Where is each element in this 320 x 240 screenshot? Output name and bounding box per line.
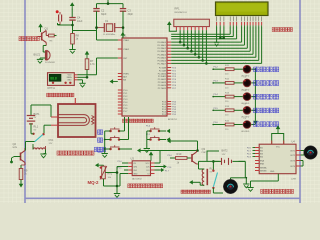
svg-text:P2.3: P2.3 — [247, 156, 251, 158]
svg-text:Q1: Q1 — [45, 27, 49, 31]
svg-text:BUZ1: BUZ1 — [34, 53, 41, 57]
svg-text:PSEN: PSEN — [123, 74, 129, 76]
svg-text:P2.5: P2.5 — [172, 82, 176, 84]
svg-text:OV1: OV1 — [49, 139, 54, 142]
svg-text:IN2: IN2 — [260, 150, 263, 152]
svg-text:88.8: 88.8 — [50, 77, 57, 81]
svg-text:P2.0: P2.0 — [172, 68, 176, 70]
svg-text:P2.0: P2.0 — [247, 147, 251, 149]
svg-text:RP1: RP1 — [175, 7, 181, 11]
svg-text:OUT3: OUT3 — [290, 160, 295, 162]
svg-text:P2.1: P2.1 — [172, 70, 176, 72]
svg-text:P0.2/AD2: P0.2/AD2 — [157, 47, 166, 50]
svg-text:U3: U3 — [131, 157, 135, 161]
svg-text:P3.5: P3.5 — [172, 114, 176, 116]
svg-text:OUT1: OUT1 — [290, 150, 295, 152]
svg-text:GND: GND — [133, 173, 138, 175]
svg-text:P2.3/A11: P2.3/A11 — [158, 75, 167, 78]
svg-text:GND: GND — [270, 171, 275, 173]
svg-text:AT89C51: AT89C51 — [168, 118, 178, 121]
svg-text:P2.1: P2.1 — [247, 150, 251, 152]
svg-text:CH1: CH1 — [133, 170, 137, 172]
svg-text:VCC: VCC — [146, 163, 151, 165]
svg-text:P0.0/AD0: P0.0/AD0 — [157, 41, 166, 44]
svg-text:12V: 12V — [49, 143, 53, 145]
svg-text:P0.3/AD3: P0.3/AD3 — [157, 50, 166, 53]
svg-text:P2.7/A15: P2.7/A15 — [158, 87, 167, 90]
svg-text:P2.3: P2.3 — [172, 76, 176, 78]
svg-text:P0.4/AD4: P0.4/AD4 — [157, 53, 166, 56]
svg-text:IN3: IN3 — [260, 153, 263, 155]
svg-text:P2.1/A9: P2.1/A9 — [159, 69, 167, 72]
svg-text:30pF: 30pF — [128, 13, 134, 16]
svg-text:P2.4: P2.4 — [172, 79, 176, 81]
svg-text:DHT11: DHT11 — [48, 87, 56, 90]
svg-text:P3.4: P3.4 — [168, 155, 172, 157]
svg-text:P2.5/A13: P2.5/A13 — [158, 81, 167, 84]
svg-text:GND: GND — [67, 80, 72, 82]
svg-text:X1: X1 — [105, 19, 109, 23]
svg-text:ADC0832: ADC0832 — [132, 177, 142, 180]
svg-text:P0.5/AD5: P0.5/AD5 — [157, 56, 166, 59]
svg-text:LED-RED: LED-RED — [241, 131, 250, 133]
svg-text:RL1: RL1 — [34, 126, 39, 129]
svg-text:P0.7/AD7: P0.7/AD7 — [157, 62, 166, 65]
svg-text:U4: U4 — [292, 140, 296, 144]
svg-text:4.7k: 4.7k — [90, 63, 95, 66]
svg-text:ALE: ALE — [123, 76, 127, 79]
svg-text:P0.1/AD1: P0.1/AD1 — [157, 44, 166, 47]
svg-text:IN1: IN1 — [260, 147, 263, 149]
svg-text:R10: R10 — [177, 152, 182, 156]
svg-text:P2.4/A12: P2.4/A12 — [158, 78, 167, 81]
svg-text:11.0592MHz: 11.0592MHz — [103, 34, 115, 36]
svg-text:P1.7: P1.7 — [165, 171, 169, 173]
svg-text:P2.2: P2.2 — [172, 73, 176, 75]
svg-text:P2.6: P2.6 — [172, 85, 176, 87]
svg-text:P2.6/A14: P2.6/A14 — [158, 84, 167, 87]
svg-text:P2.2: P2.2 — [247, 153, 251, 155]
svg-text:CH0: CH0 — [133, 166, 137, 168]
svg-text:VCC: VCC — [276, 146, 281, 148]
svg-text:P1.6: P1.6 — [168, 167, 172, 169]
svg-text:IN4: IN4 — [260, 156, 263, 158]
svg-text:BAT2: BAT2 — [222, 150, 229, 153]
svg-text:P0.6/AD6: P0.6/AD6 — [157, 59, 166, 62]
svg-text:XTAL2: XTAL2 — [123, 48, 130, 51]
svg-text:PNP: PNP — [202, 152, 207, 154]
svg-text:SOUNDER: SOUNDER — [45, 62, 56, 64]
svg-text:SENSA: SENSA — [260, 166, 267, 169]
svg-text:RESPACK-8: RESPACK-8 — [175, 11, 188, 14]
svg-text:NPN: NPN — [13, 147, 18, 149]
svg-text:P2.2/A10: P2.2/A10 — [158, 72, 167, 75]
svg-text:12V: 12V — [222, 154, 226, 156]
svg-text:P2.7: P2.7 — [172, 88, 176, 90]
svg-text:P1.5: P1.5 — [118, 168, 122, 170]
svg-text:MQ-2: MQ-2 — [88, 180, 100, 185]
svg-text:OUT2: OUT2 — [290, 155, 295, 157]
svg-text:P2.0/A8: P2.0/A8 — [159, 67, 167, 70]
svg-text:30pF: 30pF — [101, 13, 107, 16]
svg-text:P1.4: P1.4 — [118, 161, 122, 163]
svg-text:XTAL1: XTAL1 — [123, 39, 130, 42]
svg-text:L298: L298 — [291, 179, 297, 181]
svg-text:10uF: 10uF — [77, 20, 83, 23]
svg-text:Q3: Q3 — [202, 147, 206, 151]
svg-text:Q2: Q2 — [13, 142, 17, 146]
svg-text:SENSB: SENSB — [260, 170, 267, 172]
svg-text:OUT4: OUT4 — [290, 166, 295, 168]
